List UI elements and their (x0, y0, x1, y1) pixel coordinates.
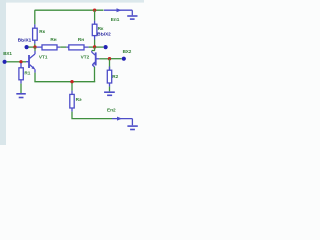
svg-text:ВЫХ2: ВЫХ2 (97, 32, 111, 37)
svg-text:ВХ2: ВХ2 (123, 49, 132, 54)
terminal VYX2 dot (104, 45, 108, 49)
wire VX1 to base node (7, 61, 20, 63)
wire Rn2 to node B (89, 46, 94, 48)
wire node B to VT2 collector jog (92, 47, 95, 50)
battery Ep2 (112, 117, 138, 130)
wire between Rn1 and Rn2 (60, 46, 66, 48)
wire VYX1 to node A (29, 46, 35, 48)
node B junction (93, 45, 96, 48)
canvas background (0, 0, 144, 145)
wire Rk2 to node B (94, 40, 96, 47)
svg-text:Rк: Rк (39, 29, 45, 34)
svg-text:Eп2: Eп2 (107, 107, 116, 112)
svg-text:Rн: Rн (78, 37, 84, 42)
wire R2 to ground (109, 87, 111, 92)
wire VT2 emitter down (94, 67, 96, 82)
wire VT2 base to R2 node (99, 58, 108, 60)
svg-text:VT1: VT1 (39, 55, 48, 60)
wire top rail (35, 9, 104, 11)
svg-text:R2: R2 (112, 74, 118, 79)
wire bottom emitter rail (35, 80, 95, 83)
terminal VX1 dot (3, 60, 7, 64)
svg-text:Rк: Rк (98, 26, 104, 31)
ground under R2 (104, 92, 115, 95)
resistor R1 (19, 63, 23, 84)
resistor Rn2 (66, 45, 88, 50)
wire left drop from rail to Rk1 (34, 10, 36, 24)
node on top rail junction (93, 9, 96, 12)
resistor Rn1 (37, 45, 61, 50)
terminal VYX1 dot (25, 45, 29, 49)
wire node B to VYX2 terminal (96, 46, 104, 48)
svg-text:Rэ: Rэ (76, 97, 82, 102)
wire R2 node to VX2 terminal (111, 58, 122, 60)
node A junction (33, 45, 36, 48)
node base VT2 junction (108, 57, 111, 60)
svg-text:VT2: VT2 (81, 55, 90, 60)
wire R1 to ground (20, 84, 22, 93)
svg-text:Rн: Rн (50, 37, 56, 42)
resistor Rk2 (92, 21, 97, 40)
wire node A to VT1 collector (34, 47, 36, 51)
top margin band (6, 0, 144, 3)
transistor VT2 (mirrored) (92, 51, 100, 67)
node base VT1 junction (19, 60, 22, 63)
transistor VT1 (26, 51, 35, 73)
ground under R1 (16, 94, 26, 98)
resistor Re (70, 83, 74, 112)
svg-text:Eп1: Eп1 (111, 17, 120, 22)
svg-text:ВХ1: ВХ1 (3, 51, 12, 56)
resistor R2 (107, 59, 111, 87)
wire Re to bottom rail (72, 112, 112, 119)
wire rail drop to Rk2 (94, 10, 96, 20)
svg-text:R1: R1 (24, 70, 30, 75)
wire Rk1 to node A (34, 44, 36, 48)
wire base node to VT1 (22, 61, 26, 63)
terminal VX2 dot (122, 57, 126, 61)
left margin band (0, 0, 6, 145)
battery Ep1 (104, 8, 138, 19)
svg-text:ВЫХ1: ВЫХ1 (18, 38, 32, 43)
wire VT1 emitter down (34, 73, 36, 82)
node emitter junction (70, 80, 73, 83)
resistor Rk1 (33, 24, 38, 43)
